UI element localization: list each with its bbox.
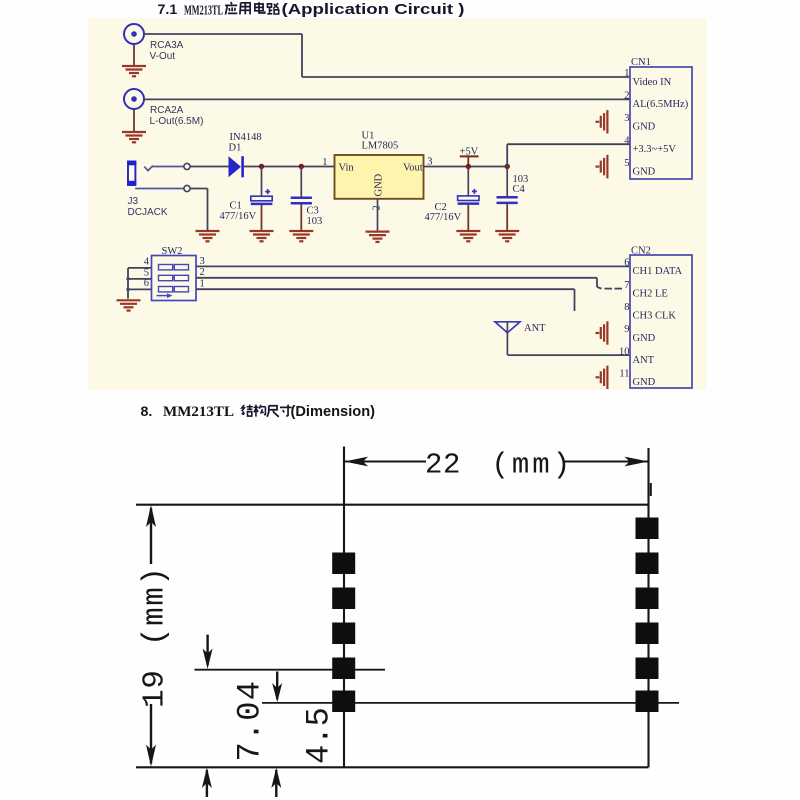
node junction at C1: [259, 164, 264, 169]
svg-text:GND: GND: [633, 333, 656, 344]
down arrow for 7.04: [206, 635, 208, 665]
pad left 2: [332, 588, 355, 610]
svg-text:4.5: 4.5: [301, 708, 338, 764]
svg-text:477/16V: 477/16V: [425, 212, 462, 223]
schematic sheet background: [88, 18, 707, 390]
capacitor C1 477/16V: [220, 167, 273, 222]
node junction at +5V/C2: [466, 164, 471, 169]
svg-text:3: 3: [200, 256, 205, 267]
dimension 22 (mm) line: [344, 461, 426, 463]
svg-text:LM7805: LM7805: [362, 140, 399, 151]
ground for RCA2A: [122, 132, 146, 142]
wire RCA2A ground lead: [133, 110, 135, 133]
svg-text:RCA2A: RCA2A: [150, 105, 184, 116]
svg-text:CH1 DATA: CH1 DATA: [633, 266, 683, 277]
ground for C1: [250, 231, 274, 241]
pad right 2: [636, 553, 659, 575]
pad right 6: [636, 691, 659, 713]
pad right 4: [636, 623, 659, 645]
connector CN1: [630, 57, 692, 179]
wire jack sleeve to pin: [135, 188, 183, 190]
svg-text:(mm): (mm): [138, 566, 173, 646]
CN1 pin 1 Video IN: [624, 68, 671, 88]
dimension 19 (mm) upper arrow: [150, 508, 152, 564]
SW2 left pin 6: [128, 288, 152, 290]
down arrow for 4.5: [276, 672, 278, 700]
wire C3 to ground: [300, 204, 302, 231]
wire RCA3A to CN1 pin1: [144, 33, 302, 35]
svg-text:Vout: Vout: [403, 163, 423, 174]
svg-text:C4: C4: [513, 184, 526, 195]
stray tick near right edge: [650, 483, 652, 496]
SW2 left pin 5: [128, 278, 152, 280]
pin circle top: [184, 163, 190, 169]
node junction at C4: [505, 164, 510, 169]
pad left 4: [332, 658, 355, 680]
svg-text:19: 19: [138, 670, 173, 708]
pad left 1: [332, 553, 355, 575]
svg-text:8: 8: [624, 302, 629, 313]
svg-text:10: 10: [619, 346, 630, 357]
svg-text:GND: GND: [633, 377, 656, 388]
CN2 pin 9 GND: [624, 324, 655, 344]
ground for C2: [456, 231, 480, 241]
svg-text:AL(6.5MHz): AL(6.5MHz): [633, 99, 689, 110]
dimension reference line through pad row 4: [195, 669, 386, 671]
svg-text:DCJACK: DCJACK: [128, 207, 168, 218]
svg-text:(Application Circuit ): (Application Circuit ): [282, 1, 465, 18]
up arrow at 7.04 baseline: [206, 770, 208, 797]
svg-text:(mm): (mm): [492, 449, 574, 482]
module outline left edge: [343, 447, 345, 768]
svg-text:5: 5: [144, 267, 149, 278]
CN1 pin 4 +3.3~+5V: [624, 135, 676, 155]
capacitor C4 103: [497, 167, 529, 203]
svg-text:6: 6: [144, 278, 149, 289]
wire jack tip to pin: [153, 166, 184, 168]
diode D1 1N4148: [229, 132, 262, 177]
wire SW2 common to ground: [127, 268, 129, 299]
svg-text:CN1: CN1: [631, 57, 651, 68]
node junction at C3: [299, 164, 304, 169]
arrowhead right of 22mm: [625, 457, 649, 467]
CN1 pin 5 GND: [624, 158, 655, 178]
pad left 5: [332, 691, 355, 713]
wire U1 pin2 to ground: [377, 199, 379, 232]
svg-text:7: 7: [624, 280, 629, 291]
switch SW2: [152, 246, 197, 301]
svg-text:1: 1: [200, 278, 205, 289]
svg-text:(Dimension): (Dimension): [291, 404, 376, 420]
power +5V: [460, 147, 479, 167]
wire C4 node up to CN1 pin4: [506, 144, 508, 166]
svg-text:D1: D1: [229, 143, 242, 154]
svg-text:103: 103: [307, 216, 323, 227]
ground for SW2: [117, 300, 141, 310]
svg-text:J3: J3: [128, 196, 139, 207]
svg-text:22: 22: [425, 449, 461, 482]
svg-text:MM213TL: MM213TL: [163, 404, 234, 420]
wire antenna to CN2 pin10: [508, 354, 631, 356]
svg-text:+3.3~+5V: +3.3~+5V: [633, 144, 677, 155]
ground symbol (rotated) at CN2 pin9: [596, 321, 608, 344]
title1 CJK 应用电路: [225, 2, 237, 14]
module outline top edge / extension line: [136, 504, 649, 506]
svg-text:2: 2: [200, 267, 205, 278]
wire RCA3A ground lead: [133, 45, 135, 67]
capacitor C3 103: [291, 167, 323, 227]
svg-text:2: 2: [624, 91, 629, 102]
CN2 pin 7 CH2&#160;LE: [624, 280, 668, 300]
pad right 3: [636, 588, 659, 610]
antenna ANT: [495, 322, 546, 355]
ground for RCA3A: [122, 66, 146, 76]
connector CN2: [630, 245, 692, 388]
module outline right edge: [647, 448, 649, 767]
wire C2 to ground: [467, 205, 469, 231]
regulator U1 LM7805: [322, 130, 432, 210]
connector RCA2A: [124, 89, 203, 127]
SW2 left pin 4: [128, 267, 152, 269]
svg-text:GND: GND: [633, 166, 656, 177]
dimension reference line through bottom pad row: [262, 702, 679, 704]
svg-text:GND: GND: [633, 122, 656, 133]
wire RCA2A to CN1 pin2: [144, 98, 630, 100]
svg-text:CN2: CN2: [631, 245, 651, 256]
CN2 pin 8 CH3 CLK: [624, 302, 676, 322]
svg-text:MM213TL: MM213TL: [184, 2, 223, 17]
wire sleeve to ground: [190, 188, 207, 190]
svg-text:C3: C3: [307, 205, 319, 216]
ground for DCJACK: [196, 231, 220, 241]
wire U1 pin3: [424, 166, 508, 168]
svg-text:CH3 CLK: CH3 CLK: [633, 311, 677, 322]
CN1 pin 2 AL(6.5MHz): [624, 91, 688, 111]
ground symbol (rotated) at CN1 pin5: [596, 155, 608, 178]
CN1 pin 3 GND: [624, 113, 655, 133]
svg-text:6: 6: [624, 258, 629, 269]
ground symbol (rotated) at CN2 pin11: [596, 366, 608, 389]
svg-text:5: 5: [624, 158, 629, 169]
svg-text:GND: GND: [374, 173, 385, 196]
svg-text:V-Out: V-Out: [150, 51, 176, 62]
ground for U1: [366, 232, 390, 242]
pad left 3: [332, 623, 355, 645]
svg-text:8.: 8.: [141, 404, 153, 420]
svg-text:4: 4: [624, 135, 630, 146]
svg-text:Video IN: Video IN: [633, 77, 672, 88]
svg-text:477/16V: 477/16V: [220, 211, 257, 222]
svg-text:7.04: 7.04: [232, 680, 269, 762]
wire C4 to ground: [506, 204, 508, 231]
CN2 pin 10 ANT: [619, 346, 655, 366]
svg-text:IN4148: IN4148: [230, 132, 262, 143]
svg-text:SW2: SW2: [162, 246, 183, 257]
connector J3 DCJACK: [127, 161, 168, 218]
wire diode to U1 pin1: [244, 166, 335, 168]
wire pin to diode: [190, 166, 229, 168]
ground symbol (rotated) at CN1 pin3: [596, 110, 608, 133]
CN2 pin 11 GND: [619, 369, 655, 389]
svg-text:ANT: ANT: [633, 355, 655, 366]
svg-text:1: 1: [322, 157, 327, 168]
svg-text:L-Out(6.5M): L-Out(6.5M): [150, 116, 204, 127]
svg-text:7.1: 7.1: [158, 2, 178, 18]
capacitor C2 477/16V: [425, 167, 480, 223]
svg-text:ANT: ANT: [524, 323, 546, 334]
pin circle bottom: [184, 185, 190, 191]
ground for C3: [289, 231, 313, 241]
svg-text:9: 9: [624, 324, 629, 335]
arrowhead left of 22mm: [345, 457, 369, 467]
title2 CJK 结构尺寸: [242, 405, 253, 416]
svg-text:11: 11: [619, 369, 629, 380]
module outline bottom edge / extension line: [136, 766, 649, 768]
svg-text:3: 3: [624, 113, 629, 124]
pad right 5: [636, 658, 659, 680]
svg-text:RCA3A: RCA3A: [150, 40, 184, 51]
svg-text:1: 1: [624, 68, 629, 79]
CN2 pin 6 CH1 DATA: [624, 258, 682, 278]
broken wire dashes at CN2 pin7: [605, 288, 613, 290]
wire C1 to ground: [261, 205, 263, 231]
svg-text:CH2 LE: CH2 LE: [633, 288, 668, 299]
svg-text:Vin: Vin: [339, 163, 355, 174]
pad right 1: [636, 518, 659, 540]
dimension 19 (mm) lower arrow: [150, 704, 152, 764]
connector RCA3A: [124, 24, 184, 62]
svg-text:4: 4: [144, 256, 150, 267]
up arrow at 4.5 baseline: [275, 770, 277, 797]
ground for C4: [495, 231, 519, 241]
